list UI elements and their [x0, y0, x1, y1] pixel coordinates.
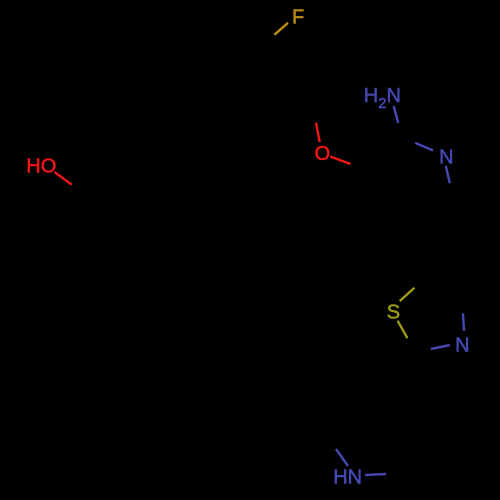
wire N-C bond stub up-left [336, 449, 348, 466]
svg-text:N: N [455, 335, 469, 357]
wire O-C bond stub from HO [55, 172, 72, 185]
wire N=C bond stub up-left [415, 143, 433, 151]
wire O-C upper bond stub [316, 123, 320, 143]
wire N-C bond stub down [446, 166, 450, 183]
wire N-C bond stub from H2N [394, 106, 399, 123]
svg-text:HO: HO [26, 156, 56, 178]
svg-text:N: N [439, 146, 453, 168]
svg-text:HN: HN [333, 467, 362, 489]
svg-text:O: O [315, 143, 331, 165]
wire N-C bond stub right [365, 474, 386, 475]
wire S-C2 bond stub [398, 321, 408, 339]
svg-text:F: F [292, 6, 304, 28]
wire C-F bond stub [274, 23, 288, 35]
svg-text:S: S [387, 302, 400, 324]
wire N=C2 bond stub left [431, 345, 450, 349]
wire O-C right bond stub [330, 157, 350, 165]
wire S-C5 bond stub [400, 288, 415, 301]
wire N-C4 bond stub up [463, 314, 464, 332]
